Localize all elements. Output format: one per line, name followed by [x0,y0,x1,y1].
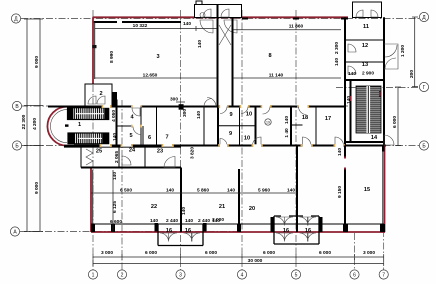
wall x218 mid [217,107,219,146]
strip bottom wall [81,167,181,169]
axis col 6b [354,233,356,270]
room 4 door arc [132,108,140,116]
axis row Б [21,145,421,147]
svg-text:11: 11 [363,24,369,30]
svg-text:14: 14 [371,135,378,141]
svg-text:6 125: 6 125 [112,201,118,213]
room 18 door arc [220,137,344,146]
wall x297 [296,146,298,233]
axis col 7 [383,230,385,270]
wall y62 [345,61,384,63]
svg-text:5 860: 5 860 [197,188,209,194]
svg-text:6: 6 [353,273,356,279]
window mark left wall [92,45,96,48]
wall x157 [142,126,144,146]
axis col 2 [121,100,123,270]
axis circle Г right [419,82,428,91]
circle 19 [265,119,271,125]
svg-text:30 000: 30 000 [248,258,263,264]
wall x159 [156,107,158,146]
stair14 left wall [350,80,352,142]
wall y40 [345,39,384,41]
bottom wall piers [91,146,385,233]
vestibule 2 [274,216,319,244]
axis circle Б right [419,141,428,150]
svg-text:17: 17 [325,116,331,122]
svg-text:11 140: 11 140 [269,73,284,79]
axis circle 1 [88,270,97,279]
svg-text:140: 140 [166,188,174,194]
wall x237 [239,107,241,146]
stair14 bottom wall [345,141,384,143]
svg-text:2 440: 2 440 [166,218,178,224]
svg-text:22 300: 22 300 [21,114,27,129]
axis circle Д right [419,12,428,21]
svg-text:25: 25 [96,149,102,155]
right lower wall inner black line [382,147,384,231]
left lower wall inner black line [92,170,94,231]
svg-text:9: 9 [229,112,232,118]
half wall room18 [291,124,303,126]
left dimension line inner [39,19,41,232]
axis circle 3 [176,270,185,279]
svg-text:23: 23 [157,149,163,155]
wall y126 left [117,125,142,127]
svg-text:5: 5 [295,273,298,279]
room 3 top dim line [95,28,217,30]
room 2 block walls [85,84,112,106]
svg-text:10 322: 10 322 [133,23,148,29]
svg-text:6: 6 [148,135,151,141]
svg-text:140: 140 [337,148,343,156]
porch doors arcs [203,9,229,17]
stair1 flight lower [68,133,109,144]
svg-text:9: 9 [229,131,232,137]
room 24 door arc [122,156,131,165]
svg-text:140: 140 [185,218,193,224]
svg-text:11 860: 11 860 [289,24,304,30]
bottom dim ticks [93,254,384,266]
pier at axis3 row B [179,104,184,110]
svg-text:140: 140 [196,111,202,119]
svg-text:6 000: 6 000 [205,250,217,256]
stair1 flight upper [68,108,109,120]
svg-text:3 000: 3 000 [101,250,113,256]
wall x145 [144,146,146,168]
axis col 5 [295,10,297,270]
svg-text:2: 2 [121,273,124,279]
axis circle 5 [291,270,300,279]
Б wall door gaps [101,144,343,146]
stair1 flight upper solid ends [68,108,73,120]
axis circle 6 [350,270,359,279]
svg-text:2: 2 [99,91,102,97]
svg-text:3: 3 [179,273,182,279]
dim line y194 [91,192,297,194]
svg-text:1: 1 [78,122,81,128]
svg-text:6 000: 6 000 [263,250,275,256]
porch top-right door arcs [356,10,378,17]
room 3 bottom dim line [95,77,217,79]
svg-text:140: 140 [348,71,356,77]
Б wall door jambs [100,144,345,147]
axis circle 2 [117,270,126,279]
shaft marks [219,25,231,45]
svg-text:140: 140 [334,58,340,66]
svg-text:22: 22 [151,204,157,210]
wall x283 [290,107,292,146]
svg-text:6 500: 6 500 [120,188,132,194]
svg-text:300: 300 [182,109,188,117]
svg-text:140: 140 [150,218,158,224]
axis circle Д left [11,14,20,23]
wall between room3 and shaft [217,5,219,107]
wall x239 [238,169,240,224]
room 2 door arcs [88,96,105,104]
svg-text:5: 5 [129,133,132,139]
svg-text:16: 16 [283,228,289,234]
stair14 hatch [356,86,381,133]
top wall inner black segments [93,21,181,23]
left exterior wall upper red [92,17,94,84]
svg-text:200: 200 [409,70,415,78]
svg-text:2 900: 2 900 [362,71,374,77]
axis col 3 [180,10,182,270]
left dim ticks [24,17,418,232]
left dimension line outer [26,19,28,232]
wall x311 [315,107,317,146]
svg-text:140: 140 [183,21,191,27]
svg-text:3: 3 [156,54,159,60]
svg-text:19: 19 [266,121,270,125]
door arcs rooms 12 13 [348,44,356,74]
svg-text:2 440: 2 440 [198,218,210,224]
wall x204 [203,107,205,146]
door arcs above B wall near x204 [204,98,216,107]
left exterior wall lower red [90,169,92,233]
svg-text:7: 7 [165,135,168,141]
axis row А [20,231,240,233]
bottom wall inner line [91,223,384,225]
svg-text:6 600: 6 600 [110,219,122,225]
svg-text:6 000: 6 000 [319,250,331,256]
svg-text:16: 16 [185,228,191,234]
svg-text:140: 140 [287,188,295,194]
vestibule 1 [158,224,203,246]
svg-text:16: 16 [166,228,172,234]
axis circle Б left [12,141,21,150]
axis row В [21,105,348,107]
svg-text:1 40: 1 40 [284,128,290,138]
stair1 top wall [64,106,117,108]
stair1 right wall [116,100,118,146]
porch inner door arcs below [200,20,237,33]
svg-text:1: 1 [92,273,95,279]
folding door room 25 [86,149,93,165]
wall chunk room2-corridor [113,92,118,106]
right exterior wall lower red [384,146,386,233]
svg-text:15: 15 [364,187,370,193]
axis circle 4 [237,270,246,279]
svg-text:9 000: 9 000 [34,182,40,194]
svg-text:3 820: 3 820 [190,147,196,159]
porch top-right block [353,2,382,18]
svg-text:21: 21 [219,204,225,210]
bottom dimension line overall [93,263,384,265]
wall x119 [118,146,120,168]
wall shaft right / room8 left [232,17,234,106]
porch top-left block [195,1,242,18]
svg-text:4: 4 [241,273,244,279]
axis circle А left [10,227,19,236]
svg-text:140: 140 [181,207,187,215]
left wall inner black line [94,22,96,79]
svg-text:5 960: 5 960 [258,188,270,194]
svg-text:20: 20 [249,206,255,212]
block left edge [80,146,82,168]
svg-text:4 200: 4 200 [32,118,38,130]
wall room8 right x345 upper [344,17,346,145]
axis circle 7 [379,270,388,279]
top wall pier ticks room8 [242,18,348,20]
top exterior wall red [93,16,349,18]
right dimension line lower [397,87,399,146]
axis row Г right [336,87,420,89]
svg-text:4 050: 4 050 [111,110,117,122]
wall x345 lower [344,146,346,233]
room 8 bottom dim line [233,77,341,79]
svg-text:12.650: 12.650 [143,73,158,79]
svg-text:9 150: 9 150 [337,186,343,198]
svg-text:3 000: 3 000 [212,217,224,223]
room 23 door arc [164,157,175,168]
svg-text:Г: Г [423,85,426,91]
svg-text:10: 10 [246,112,252,118]
dim vline x113 [112,170,114,230]
row В wall y106.5 [48,106,345,108]
svg-text:7: 7 [382,273,385,279]
svg-text:8 990: 8 990 [109,51,115,63]
wall y126 mid [218,125,256,127]
stair flight midlines [76,113,104,115]
svg-text:13: 13 [362,62,368,68]
svg-text:9 000: 9 000 [34,56,40,68]
stair14 divider [367,86,371,133]
room9 door arc [220,105,308,108]
right dimension line upper [414,17,416,87]
svg-text:6 000: 6 000 [145,250,157,256]
wall y80 [345,79,384,81]
axis col 4 [241,10,243,270]
svg-text:3 000: 3 000 [363,250,375,256]
axis col 6 [345,145,347,232]
wall x258 [255,107,257,146]
svg-text:140: 140 [112,133,118,141]
axis col 1 [92,10,94,270]
bay inner arc [50,110,67,143]
bottom exterior wall red [91,231,385,233]
outside door right wall [384,44,398,69]
porch circle symbol [200,13,205,18]
bay red arc [47,107,67,146]
svg-text:16: 16 [305,228,311,234]
svg-text:1 200: 1 200 [400,45,406,57]
svg-text:12: 12 [362,43,368,49]
axis row Д left-right dash-dot [21,18,420,20]
svg-text:140: 140 [197,40,203,48]
svg-text:24: 24 [129,148,136,154]
svg-text:10: 10 [244,136,250,142]
room 8 top dim line [233,29,341,31]
wall right exterior upper [383,17,385,145]
stair14 exit door arc [384,135,394,145]
svg-text:6 000: 6 000 [392,116,398,128]
svg-text:140: 140 [284,116,290,124]
svg-text:300: 300 [170,97,178,103]
wall x140 [140,107,142,146]
svg-text:2 300: 2 300 [334,42,340,54]
axis circle В left [12,101,21,110]
stair1 flight lower solid ends [69,133,76,144]
svg-text:140: 140 [227,188,235,194]
bottom dimension line segments [93,256,384,258]
wall x181 lower [180,168,182,233]
svg-text:18: 18 [302,115,308,121]
row Б wall y145.5 [74,145,386,147]
svg-text:8: 8 [268,53,271,59]
